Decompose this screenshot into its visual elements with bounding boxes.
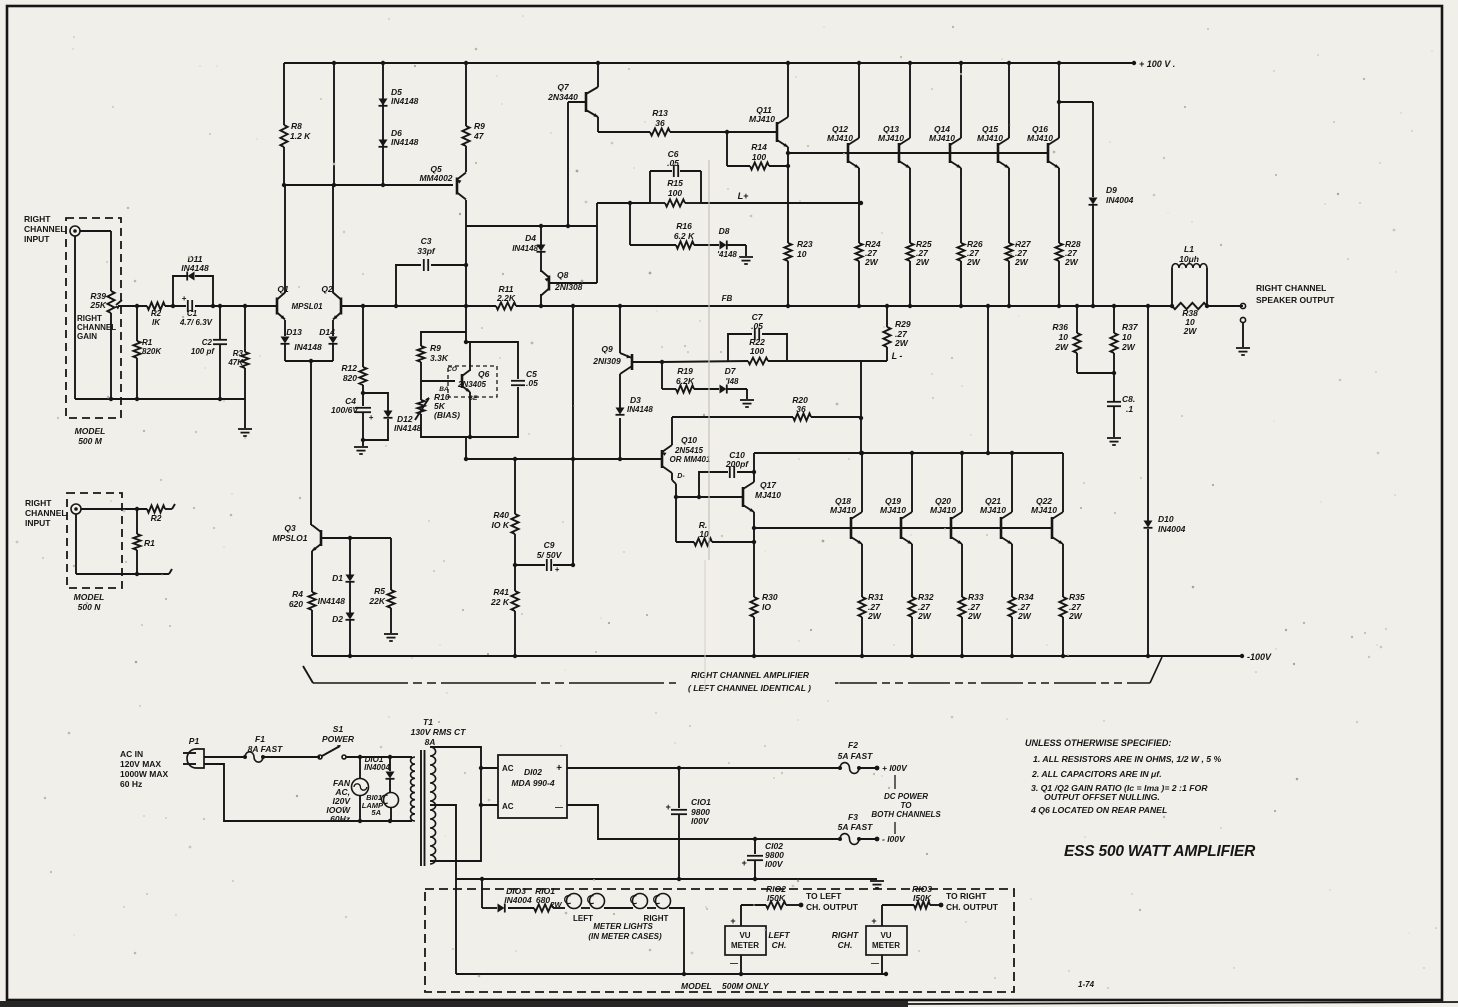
svg-text:D8: D8 bbox=[719, 226, 730, 236]
label C6 bbox=[667, 149, 679, 168]
wire Q2 emitter to D14 bbox=[332, 320, 334, 336]
svg-text:CH.: CH. bbox=[838, 940, 853, 950]
wire Q17 base bbox=[674, 495, 743, 499]
svg-text:R37: R37 bbox=[1122, 322, 1139, 332]
capacitor C7 bbox=[755, 328, 759, 340]
wire R1 500N bbox=[133, 509, 140, 576]
label Q22 bbox=[1031, 496, 1057, 515]
svg-text:+: + bbox=[741, 858, 747, 868]
diode D6 bbox=[379, 140, 388, 147]
capacitor C3 bbox=[424, 259, 428, 271]
svg-text:D2: D2 bbox=[332, 614, 343, 624]
wire Q10 collector bbox=[671, 417, 673, 445]
svg-text:5A: 5A bbox=[371, 808, 381, 817]
capacitor C102 bbox=[741, 839, 763, 881]
label R19 bbox=[676, 366, 695, 386]
svg-text:100/6V: 100/6V bbox=[331, 405, 359, 415]
svg-text:2W: 2W bbox=[915, 257, 930, 267]
input jack lower bbox=[71, 504, 81, 514]
label R23 bbox=[797, 239, 813, 259]
svg-text:MM4002: MM4002 bbox=[419, 173, 452, 183]
diode D13 bbox=[281, 337, 290, 344]
svg-text:FB: FB bbox=[722, 294, 733, 303]
wire D103 line bbox=[482, 879, 565, 908]
label R22 bbox=[749, 337, 765, 356]
svg-text:METER: METER bbox=[731, 941, 759, 950]
scan fold seam bbox=[705, 160, 709, 690]
svg-text:I00V: I00V bbox=[765, 859, 784, 869]
svg-text:IN4148: IN4148 bbox=[394, 423, 422, 433]
wire Q7 base riser bbox=[568, 102, 586, 226]
transistor Q21 bbox=[1001, 512, 1012, 544]
svg-text:2N3405: 2N3405 bbox=[457, 380, 487, 389]
svg-text:RIGHT: RIGHT bbox=[832, 930, 859, 940]
wire Q3 collector vertical bbox=[311, 361, 312, 525]
label R40 bbox=[492, 510, 510, 530]
label 1-74 bbox=[1078, 980, 1095, 989]
wire bias box bbox=[421, 332, 518, 439]
svg-text:AC IN: AC IN bbox=[120, 749, 143, 759]
wire Q18 collector bbox=[861, 453, 863, 512]
svg-text:D7: D7 bbox=[725, 366, 737, 376]
svg-text:10: 10 bbox=[797, 249, 807, 259]
wire D11 loop bbox=[173, 276, 213, 306]
wire C7R22 line bbox=[662, 361, 887, 362]
svg-text:IN4148: IN4148 bbox=[181, 263, 209, 273]
svg-text:CHANNEL: CHANNEL bbox=[24, 224, 66, 234]
svg-text:MPSL01: MPSL01 bbox=[291, 302, 323, 311]
svg-text:D10: D10 bbox=[1158, 514, 1174, 524]
label Q13 bbox=[878, 124, 904, 143]
label LEFT CH bbox=[768, 930, 790, 950]
label D10 bbox=[1158, 514, 1186, 534]
svg-text:R1: R1 bbox=[142, 338, 153, 347]
wire Q9 emitter up bbox=[618, 304, 622, 353]
fan motor B bbox=[352, 757, 369, 821]
svg-text:2NI309: 2NI309 bbox=[592, 356, 621, 366]
svg-text:Q8: Q8 bbox=[557, 270, 569, 280]
label right channel gain bbox=[77, 314, 116, 341]
svg-text:2W: 2W bbox=[1017, 611, 1032, 621]
label C5 bbox=[526, 369, 538, 388]
svg-text:R5: R5 bbox=[374, 586, 385, 596]
label right channel input lower bbox=[25, 498, 67, 528]
label Q17 bbox=[755, 480, 781, 500]
label R1 820K bbox=[142, 338, 162, 356]
label R2 1K bbox=[151, 309, 162, 327]
svg-text:R16: R16 bbox=[676, 221, 692, 231]
svg-text:F3: F3 bbox=[848, 812, 858, 822]
svg-text:Q3: Q3 bbox=[284, 523, 296, 533]
svg-text:MJ410: MJ410 bbox=[827, 133, 853, 143]
svg-text:2W: 2W bbox=[1054, 342, 1069, 352]
transistor Q18 bbox=[851, 512, 862, 544]
wire Q22 collector bbox=[1062, 453, 1064, 512]
svg-text:33pf: 33pf bbox=[417, 246, 436, 256]
label C4 bbox=[331, 396, 359, 415]
wire D10 vertical bbox=[1146, 304, 1150, 658]
wire Q16 collector bbox=[1057, 61, 1061, 138]
bridge rectifier D102 bbox=[498, 755, 567, 818]
label model 500M only bbox=[681, 981, 770, 991]
svg-text:5A FAST: 5A FAST bbox=[838, 751, 873, 761]
svg-text:2W: 2W bbox=[1014, 257, 1029, 267]
fuse F2 bbox=[838, 763, 861, 774]
resistor R101 680 bbox=[534, 904, 553, 911]
svg-text:2W: 2W bbox=[894, 338, 909, 348]
label METER LIGHTS bbox=[588, 922, 662, 941]
svg-text:R33: R33 bbox=[968, 592, 984, 602]
wire x988 riser bbox=[986, 304, 990, 453]
inductor L1 bbox=[1172, 264, 1207, 268]
wire Q20 emitter vertical bbox=[960, 544, 964, 658]
label FB bbox=[722, 294, 733, 303]
svg-text:R3: R3 bbox=[233, 349, 244, 358]
label channel amplifier bbox=[688, 670, 811, 693]
svg-text:—: — bbox=[730, 959, 738, 968]
svg-text:- I00V: - I00V bbox=[882, 834, 906, 844]
svg-text:R14: R14 bbox=[751, 142, 767, 152]
svg-text:R36: R36 bbox=[1052, 322, 1068, 332]
svg-text:120V MAX: 120V MAX bbox=[120, 759, 161, 769]
label R27 bbox=[1014, 239, 1032, 267]
wire R21 line bbox=[676, 541, 754, 543]
svg-text:TO LEFT: TO LEFT bbox=[806, 891, 842, 901]
label RIGHT CH bbox=[832, 930, 859, 950]
input 500M dashed box bbox=[66, 218, 121, 418]
label D13 D14 bbox=[286, 327, 335, 352]
svg-text:F2: F2 bbox=[848, 740, 858, 750]
potentiometer R39 bbox=[107, 291, 122, 399]
svg-text:2. ALL CAPACITORS ARE IN μf.: 2. ALL CAPACITORS ARE IN μf. bbox=[1031, 769, 1162, 779]
resistor R24 bbox=[855, 243, 862, 261]
wire R37 bbox=[1110, 304, 1117, 375]
svg-text:22 K: 22 K bbox=[490, 597, 510, 607]
resistor R12 820 bbox=[359, 367, 366, 385]
svg-text:60 Hz: 60 Hz bbox=[120, 779, 142, 789]
label D9 bbox=[1106, 185, 1134, 205]
svg-text:MJ410: MJ410 bbox=[980, 505, 1006, 515]
wire T1 sec top tap bbox=[430, 747, 483, 861]
wire Q12 collector bbox=[857, 61, 861, 138]
wire L1 loop bbox=[1170, 268, 1209, 308]
svg-text:R29: R29 bbox=[895, 319, 911, 329]
resistor R25 bbox=[906, 243, 913, 261]
label S1 bbox=[322, 724, 355, 744]
label R1 500N bbox=[144, 538, 155, 548]
input jack upper bbox=[70, 226, 80, 236]
svg-text:MJ410: MJ410 bbox=[878, 133, 904, 143]
wire C3 loop bbox=[394, 263, 468, 308]
label D103 bbox=[504, 886, 532, 905]
resistor R22 100 bbox=[748, 358, 768, 365]
svg-text:6.2K: 6.2K bbox=[676, 376, 695, 386]
wire -100 line bbox=[567, 805, 879, 841]
diode D5 bbox=[379, 99, 388, 106]
wire L- vertical bbox=[859, 361, 863, 455]
label R25 bbox=[915, 239, 932, 267]
resistor R103 150K bbox=[882, 901, 943, 908]
svg-text:5/ 50V: 5/ 50V bbox=[537, 550, 563, 560]
svg-text:RIGHT CHANNEL AMPLIFIER: RIGHT CHANNEL AMPLIFIER bbox=[691, 670, 810, 680]
label Q2 bbox=[321, 284, 333, 294]
resistor R28 bbox=[1055, 243, 1062, 261]
label R20 bbox=[792, 395, 808, 414]
ground ps bbox=[870, 881, 884, 888]
note 3 bbox=[1031, 783, 1208, 802]
label +100V ps bbox=[882, 763, 908, 773]
label R29 bbox=[894, 319, 911, 348]
wire T1 AC inputs bbox=[481, 768, 498, 805]
wire Q8 emitter to bus bbox=[539, 294, 543, 308]
label D5 bbox=[391, 87, 419, 106]
label Q9 bbox=[592, 344, 621, 366]
wire R12 branch bbox=[361, 304, 365, 367]
potentiometer R10 5K bbox=[415, 397, 429, 420]
wire R15C6 box bbox=[650, 171, 701, 203]
svg-text:BA: BA bbox=[439, 386, 449, 393]
wire Q14 collector bbox=[959, 61, 963, 138]
label P1 bbox=[189, 736, 200, 746]
label F3 bbox=[838, 812, 873, 832]
+100V label bbox=[1139, 59, 1175, 69]
svg-text:CH. OUTPUT: CH. OUTPUT bbox=[946, 902, 999, 912]
svg-text:100: 100 bbox=[750, 346, 764, 356]
svg-text:TO RIGHT: TO RIGHT bbox=[946, 891, 987, 901]
wire Q9 collector to D3 bbox=[619, 374, 621, 459]
wire Q2 collector vertical bbox=[332, 61, 336, 293]
label LEFT RIGHT lights bbox=[573, 914, 669, 923]
resistor R35 bbox=[1059, 597, 1066, 617]
diode D14 bbox=[329, 337, 338, 344]
switch S1 bbox=[318, 745, 346, 759]
label R103 bbox=[912, 884, 932, 903]
note 2 bbox=[1031, 769, 1162, 779]
label Q12 bbox=[827, 124, 853, 143]
wire Q6 base bbox=[421, 380, 455, 382]
svg-text:D13: D13 bbox=[286, 327, 302, 337]
resistor R13 36 bbox=[650, 128, 670, 135]
svg-text:F1: F1 bbox=[255, 734, 265, 744]
wire y459 line bbox=[464, 437, 662, 461]
svg-text:'4148: '4148 bbox=[717, 250, 737, 259]
wire R15C6 left bbox=[597, 201, 650, 226]
label R30 bbox=[762, 592, 778, 612]
label C10 bbox=[725, 450, 749, 469]
label R39 bbox=[89, 291, 106, 310]
transformer T1 secondary bbox=[430, 747, 436, 864]
label Q21 bbox=[980, 496, 1006, 515]
label R5 bbox=[368, 586, 385, 606]
svg-text:2W: 2W bbox=[966, 257, 981, 267]
diode D103 bbox=[498, 904, 505, 913]
svg-text:ESS 500 WATT AMPLIFIER: ESS 500 WATT AMPLIFIER bbox=[1064, 843, 1256, 860]
label D12 bbox=[394, 414, 422, 433]
label Q16 bbox=[1027, 124, 1053, 143]
label R15 bbox=[667, 178, 683, 198]
label R11 bbox=[496, 284, 516, 303]
svg-text:.1: .1 bbox=[1126, 404, 1133, 414]
svg-text:100 pf: 100 pf bbox=[191, 347, 215, 356]
svg-text:CH.: CH. bbox=[772, 940, 787, 950]
svg-text:UNLESS OTHERWISE SPECIFIED:: UNLESS OTHERWISE SPECIFIED: bbox=[1025, 738, 1171, 748]
wire Q11 collector bbox=[786, 61, 790, 117]
label Q7 bbox=[547, 82, 578, 102]
svg-text:R32: R32 bbox=[918, 592, 934, 602]
label R8 bbox=[290, 121, 311, 141]
svg-text:+: + bbox=[555, 565, 560, 574]
svg-text:R23: R23 bbox=[797, 239, 813, 249]
wire Q16 emitter vertical bbox=[1057, 168, 1061, 308]
resistor R33 bbox=[958, 597, 965, 617]
svg-text:IN4148: IN4148 bbox=[391, 96, 419, 106]
ground C8 bbox=[1107, 438, 1121, 445]
wire F1 to S1 bbox=[263, 756, 320, 758]
wire Q7 collector bbox=[596, 61, 600, 87]
diode D9 bbox=[1089, 198, 1098, 205]
fuse F3 bbox=[838, 834, 861, 845]
transistor Q19 bbox=[901, 512, 912, 544]
resistor R31 bbox=[858, 597, 865, 617]
label C3 bbox=[417, 236, 436, 256]
wire R16 branch bbox=[630, 203, 719, 245]
label model 500N bbox=[74, 592, 105, 612]
label C2 bbox=[191, 338, 215, 356]
label L+ bbox=[738, 191, 749, 201]
wire L+ line bbox=[701, 201, 863, 205]
wire C8 bbox=[1107, 373, 1121, 437]
svg-text:D-: D- bbox=[677, 473, 685, 480]
wire C10 loop bbox=[699, 470, 756, 497]
+100V rail bbox=[284, 61, 1136, 65]
wire Q11 emitter vertical bbox=[786, 147, 790, 308]
svg-text:.05: .05 bbox=[751, 321, 763, 331]
label D101 bbox=[364, 755, 390, 772]
label Q18 bbox=[830, 496, 856, 515]
wire Q6 collector lead bbox=[469, 342, 471, 371]
label 1N4148 D1D2 bbox=[318, 596, 346, 606]
meter light bulbs bbox=[565, 894, 671, 909]
svg-text:820K: 820K bbox=[142, 347, 162, 356]
label R102 bbox=[766, 884, 786, 903]
svg-text:VU: VU bbox=[880, 931, 891, 940]
capacitor C10 bbox=[730, 466, 734, 478]
resistor R34 bbox=[1008, 597, 1015, 617]
svg-text:D14: D14 bbox=[319, 327, 335, 337]
label R21 bbox=[699, 520, 709, 539]
svg-text:RIGHT: RIGHT bbox=[24, 214, 51, 224]
wire jack to R39 bbox=[80, 231, 111, 291]
svg-text:IO: IO bbox=[762, 602, 771, 612]
label Q8 bbox=[554, 270, 583, 292]
resistor R4 620 bbox=[308, 592, 315, 656]
svg-text:METER: METER bbox=[872, 941, 900, 950]
transistor Q10 bbox=[662, 445, 672, 473]
label C7 bbox=[751, 312, 764, 331]
label L1 bbox=[1179, 244, 1199, 264]
transistor Q3 bbox=[312, 525, 321, 551]
label model 500M bbox=[75, 426, 106, 446]
svg-text:BOTH CHANNELS: BOTH CHANNELS bbox=[871, 810, 941, 819]
label R9 3.3K bbox=[430, 343, 449, 363]
svg-text:1000W MAX: 1000W MAX bbox=[120, 769, 169, 779]
svg-text:R15: R15 bbox=[667, 178, 683, 188]
wire Q1 collector vertical bbox=[282, 63, 286, 293]
label C1 bbox=[179, 309, 213, 327]
diode D4 bbox=[537, 245, 546, 252]
svg-text:2W: 2W bbox=[867, 611, 882, 621]
svg-text:AC: AC bbox=[502, 802, 514, 811]
wire x573 vertical bbox=[571, 304, 575, 567]
wire Q8 base link bbox=[549, 226, 597, 283]
wire Q13 collector bbox=[908, 61, 912, 138]
label R10 bbox=[434, 392, 460, 420]
capacitor C6 bbox=[674, 165, 678, 177]
svg-text:Q9: Q9 bbox=[601, 344, 613, 354]
label Q6 bbox=[439, 366, 489, 402]
svg-text:CIO1: CIO1 bbox=[691, 797, 711, 807]
svg-text:MJ410: MJ410 bbox=[929, 133, 955, 143]
svg-text:R4: R4 bbox=[292, 589, 303, 599]
wire C4 branch bbox=[355, 385, 374, 446]
svg-text:MPSLO1: MPSLO1 bbox=[273, 533, 308, 543]
wire R36 bbox=[1073, 304, 1114, 373]
label to right output bbox=[946, 891, 999, 912]
resistor R14 100 bbox=[750, 162, 769, 169]
svg-text:MJ410: MJ410 bbox=[880, 505, 906, 515]
svg-text:R40: R40 bbox=[493, 510, 509, 520]
transistor Q22 bbox=[1052, 512, 1063, 544]
svg-text:IN4148: IN4148 bbox=[627, 405, 653, 414]
svg-text:+: + bbox=[369, 413, 374, 422]
wire y226 line bbox=[466, 224, 597, 228]
svg-text:GAIN: GAIN bbox=[77, 332, 97, 341]
svg-text:—: — bbox=[871, 959, 879, 968]
label D102 bbox=[502, 763, 563, 812]
wire D4 chain bbox=[540, 226, 542, 268]
wire AC return bbox=[204, 764, 412, 823]
wire Q3 base line bbox=[321, 536, 391, 540]
svg-text:MJ410: MJ410 bbox=[977, 133, 1003, 143]
wire Q12 emitter vertical bbox=[857, 168, 861, 308]
wire Q19 collector bbox=[911, 453, 913, 512]
resistor R2 1K bbox=[147, 302, 165, 309]
transistor Q8 bbox=[541, 271, 549, 296]
wire Q18 emitter vertical bbox=[860, 544, 864, 658]
resistor R27 bbox=[1005, 243, 1012, 261]
wire input line bbox=[118, 304, 277, 308]
capacitor C101 bbox=[665, 768, 687, 881]
label to left output bbox=[806, 891, 859, 912]
wire Q8 collector link bbox=[540, 268, 542, 272]
svg-text:IK: IK bbox=[152, 318, 161, 327]
resistor R9 3.3K bbox=[417, 346, 424, 362]
svg-text:2W: 2W bbox=[1068, 611, 1083, 621]
wire Q17 emitter vertical bbox=[752, 512, 756, 597]
label R32 bbox=[917, 592, 934, 621]
svg-text:DI02: DI02 bbox=[524, 767, 542, 777]
svg-text:60Hz: 60Hz bbox=[330, 814, 351, 824]
svg-text:4.7/ 6.3V: 4.7/ 6.3V bbox=[179, 318, 213, 327]
wire Q7 emitter to R13 line bbox=[597, 117, 599, 132]
svg-text:(IN METER CASES): (IN METER CASES) bbox=[588, 932, 662, 941]
wire Q15 emitter vertical bbox=[1007, 168, 1011, 308]
resistor R102 150K bbox=[741, 901, 803, 908]
wire R40 bbox=[511, 459, 518, 567]
wire Q21 collector bbox=[1011, 453, 1013, 512]
svg-text:2W: 2W bbox=[549, 900, 562, 909]
label D7 bbox=[725, 366, 739, 386]
